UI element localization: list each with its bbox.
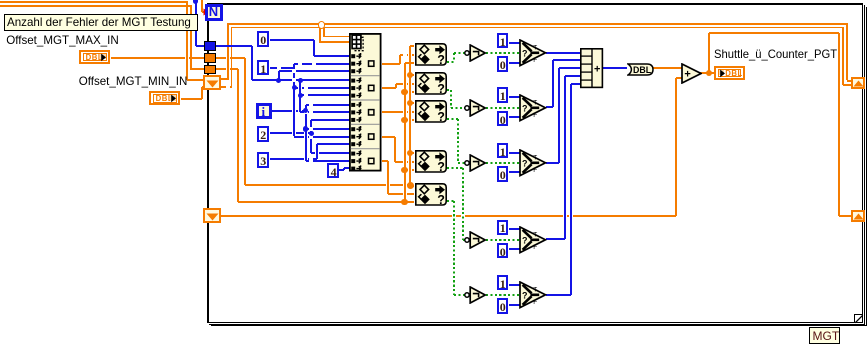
junction i row10 [0,0,1,1]
wire MAX control to tunnel [0,0,1,1]
wire sum to DBL conversion [0,0,1,1]
wire i into row10 [0,0,1,1]
svg-text:T: T [533,154,537,161]
wire MIN into IR5 lo [0,0,1,1]
wire 0 into select 3 [0,0,1,1]
dog-ear fold [0,0,1,1]
wire select3 out [0,0,1,1]
wire bool out IR2 [0,0,1,1]
junction MIN IR2 [0,0,1,1]
wire add out [0,0,1,1]
svg-text:+: + [684,68,690,80]
svg-text:?: ? [437,192,445,206]
wire SR pair left vertical A [0,0,1,1]
wire array out2 up [0,0,1,1]
wire MIN distribution vertical [0,0,1,1]
wire 0 into select 5 [0,0,1,1]
shift register left terminal 2 (down arrow) [0,0,1,1]
svg-text:T: T [533,45,537,52]
wire const 1 vertical [0,0,1,1]
add node [0,0,1,1]
wire bool out IR4 [0,0,1,1]
for-loop shadow line 1 [0,0,1,1]
wire const 2 into row13 [0,0,1,1]
wire result up [0,0,1,1]
wire MIN under node [0,0,1,1]
wire array out5 [0,0,1,1]
constant 1 (row 3) [0,0,1,1]
junction MIN IR3 [0,0,1,1]
wire array out4 down [0,0,1,1]
select node 1 [0,0,1,1]
tunnel orange MIN [0,0,1,1]
wire branch into row3 [0,0,1,1]
label Offset_MGT_MIN_IN [0,0,1,1]
for-loop count terminal N [0,0,1,1]
wire result down right [0,0,1,1]
coercion dot (red arrow) at N [0,0,1,1]
wire MAX into IR2 hi [0,0,1,1]
wire const 2 out [0,0,1,1]
wire select5 vertical [0,0,1,1]
junction main array B [0,0,1,1]
wire bool into NOT4 [0,0,1,1]
wire main array into row4 [0,0,1,1]
wire bool NOT3 to select [0,0,1,1]
wire MAX into IR5 hi [0,0,1,1]
svg-text:?: ? [522,235,528,245]
wire branch into row8 [0,0,1,1]
wire bool vertical IR2 [0,0,1,1]
svg-text:F: F [533,299,537,306]
constant 1 (row 4) [0,0,1,1]
in-range-and-coerce node 4 [0,0,1,1]
wire const 3 vertical [0,0,1,1]
wire count into N [0,0,1,1]
wire MIN into IR3 lo [0,0,1,1]
wire iteration i out [0,0,1,1]
wire DBL to add [0,0,1,1]
wire result top run [0,0,1,1]
svg-text:T: T [533,287,537,294]
wire select4 out [0,0,1,1]
junction on blue wire at top edge [0,0,1,1]
wire bool vertical IR3 [0,0,1,1]
wire SR pair lower horizontal [0,0,1,1]
wire bool into NOT3 [0,0,1,1]
wire select4 vertical [0,0,1,1]
wire const 4 into row15 [0,0,1,1]
wire bool out IR3 [0,0,1,1]
wire MAX distribution vertical [0,0,1,1]
wire blue tunnel down [0,0,1,1]
constant 0 (row 5) [0,0,1,1]
wire blue from top edge [0,0,1,1]
in-range-and-coerce node 5 [0,0,1,1]
wire const 4 out [0,0,1,1]
wire blue into tunnel [0,0,1,1]
NOT gate 4 [0,0,1,1]
junction ring on upper pair wire [0,0,1,1]
wire feedback up to add [0,0,1,1]
shift register left terminal 1 (down arrow) [0,0,1,1]
wire MIN into IR2 lo [0,0,1,1]
wire blue tunnel out [0,0,1,1]
wire bool out IR5 [0,0,1,1]
wire branch down from main [0,0,1,1]
junction MAX IR3 [0,0,1,1]
constant 1 (row 5) [0,0,1,1]
svg-text:T: T [533,99,537,106]
wire array out1 [0,0,1,1]
wire bool into NOT2 [0,0,1,1]
svg-text:?: ? [522,103,528,113]
wire MIN inside tunnel out [0,0,1,1]
wire const 0 out [0,0,1,1]
wire 1 into select 1 [0,0,1,1]
wire branch up from main [0,0,1,1]
wire 0 into select 4 [0,0,1,1]
svg-text:F: F [533,111,537,118]
NOT gate 5 [0,0,1,1]
tunnel orange MAX [0,0,1,1]
wire MAX into IR1 hi [0,0,1,1]
wire min tunnel feed from left edge [0,0,1,1]
wire 1 into select 4 [0,0,1,1]
svg-text:DBL: DBL [633,65,652,75]
constant 4 [0,0,1,1]
wire SR pair right vertical A [0,0,1,1]
wire branch into row11 [0,0,1,1]
svg-text:+: + [593,64,599,76]
iteration terminal i [0,0,1,1]
select node 2 [0,0,1,1]
svg-text:?: ? [437,110,445,124]
MGT frame label [0,0,1,1]
wire array input 2 into node [0,0,1,1]
wire array input 1 into node [0,0,1,1]
wire bool into NOT5 [0,0,1,1]
wire select1 to sum [0,0,1,1]
wire 1 into select 5 [0,0,1,1]
wire select2 out [0,0,1,1]
wire bool NOT2 to select [0,0,1,1]
svg-text:?: ? [522,158,528,168]
control terminal Offset_MGT_MIN_IN (DBL) [0,0,1,1]
wire iteration vertical [0,0,1,1]
for-loop border [0,0,1,1]
wire MAX into IR3 hi [0,0,1,1]
constant 1 [0,0,1,1]
wire select4 into sum [0,0,1,1]
wire SR pair upper horizontal [0,0,1,1]
wire const 3 into row12 [0,0,1,1]
junction MAX IR2 [0,0,1,1]
wire shift-reg upper feed into SR [0,0,1,1]
wire select2 into sum [0,0,1,1]
for-loop shadow line 2 [0,0,1,1]
indicator terminal Shuttle_ü_Counter_PGT (DBL) [0,0,1,1]
wire SR pair into right SR1 upper [0,0,1,1]
wire SR pair right vertical B [0,0,1,1]
wire array input drop 2 [0,0,1,1]
wire MIN control out [0,0,1,1]
NOT gate 3 [0,0,1,1]
wire 1 into select 3 [0,0,1,1]
wire array out2 into IR2 x [0,0,1,1]
junction MAX IR4 [0,0,1,1]
wire const 3 out [0,0,1,1]
label Shuttle_ü_Counter_PGT [0,0,1,1]
constant 0 (row 2) [0,0,1,1]
wire array out2 [0,0,1,1]
wire select5 into sum [0,0,1,1]
tunnel blue (array in) [0,0,1,1]
wire MIN into IR1 lo [0,0,1,1]
in-range-and-coerce node 2 [0,0,1,1]
label Anzahl der Fehler der MGT Testung [0,0,1,1]
wire feedback into add [0,0,1,1]
wire MAX under node [0,0,1,1]
wire bool out IR1 [0,0,1,1]
svg-text:F: F [533,243,537,250]
constant 0 (row 1) [0,0,1,1]
junction add output [0,0,1,1]
in-range-and-coerce node 3 [0,0,1,1]
wire bool vertical IR1 [0,0,1,1]
select node 3 [0,0,1,1]
select node 5 [0,0,1,1]
wire count into N vertical [0,0,1,1]
wire result into SR2 [0,0,1,1]
svg-text:?: ? [437,82,445,96]
wire branch into row5 [0,0,1,1]
svg-text:F: F [533,167,537,174]
control terminal Offset_MGT_MAX_IN (DBL) [0,0,1,1]
wire shift-reg upper feed from left edge [0,0,1,1]
junction MIN IR4 [0,0,1,1]
to-DBL conversion node [0,0,1,1]
index array node [0,0,1,1]
wire i into row14 [0,0,1,1]
wire const 1 out [0,0,1,1]
wire SR1 lower stub [0,0,1,1]
in-range-and-coerce node 1 [0,0,1,1]
wire array out4 [0,0,1,1]
wire min tunnel feed into tunnel [0,0,1,1]
compound arithmetic add node [0,0,1,1]
wire bool NOT4 to select [0,0,1,1]
wire const 1 into row2 [0,0,1,1]
wire select3 into sum [0,0,1,1]
wire 1 into select 2 [0,0,1,1]
select node 4 [0,0,1,1]
wire bool NOT5 to select [0,0,1,1]
constant 3 [0,0,1,1]
wire select3 vertical [0,0,1,1]
wire SR2 feedback long [0,0,1,1]
wire SR pair into right SR1 lower [0,0,1,1]
wire 0 into select 2 [0,0,1,1]
wire bool NOT1 to select [0,0,1,1]
wire MIN control into SR [0,0,1,1]
constant 2 [0,0,1,1]
wire MIN into IR4 lo [0,0,1,1]
junction const2 join [0,0,1,1]
NOT gate 2 [0,0,1,1]
wire select2 vertical [0,0,1,1]
junction row6 branch [0,0,1,1]
wire const 4 up [0,0,1,1]
svg-text:?: ? [437,160,445,174]
svg-text:T: T [533,231,537,238]
label Offset_MGT_MAX_IN [0,0,1,1]
wire const 0 down [0,0,1,1]
junction i join [0,0,1,1]
wire bool vertical IR4 [0,0,1,1]
wire array out5 into IR5 x [0,0,1,1]
wire MIN control up [0,0,1,1]
NOT gate 1 [0,0,1,1]
wire array out1 up [0,0,1,1]
wire const 2 vertical [0,0,1,1]
junction MAX big at IR5 [0,0,1,1]
wire min tunnel feed vertical [0,0,1,1]
wire array input drop 1 [0,0,1,1]
junction MIN IR5 [0,0,1,1]
wire MAX inside tunnel out [0,0,1,1]
wire MAX down left [0,0,1,1]
wire bool vertical IR5 [0,0,1,1]
wire 0 into select 1 [0,0,1,1]
wire branch into row6 [0,0,1,1]
shift register right terminal 1 (up arrow) [0,0,1,1]
wire array out1 into IR1 x [0,0,1,1]
wire array out5 down [0,0,1,1]
wire i into row7 [0,0,1,1]
wire shift-reg upper feed vertical [0,0,1,1]
shift register right terminal 2 (up arrow) [0,0,1,1]
junction main array A [0,0,1,1]
constant 1 (row 1) [0,0,1,1]
junction const1 row5 [0,0,1,1]
wire const 2 into row9 [0,0,1,1]
svg-text:?: ? [522,291,528,301]
wire select5 out [0,0,1,1]
wire array out4 into IR4 x [0,0,1,1]
wire bool into NOT1 [0,0,1,1]
wire array out3 into IR3 x [0,0,1,1]
wire const 0 into row1 [0,0,1,1]
svg-text:F: F [533,57,537,64]
constant 0 (row 4) [0,0,1,1]
wire SR1 upper stub [0,0,1,1]
svg-text:?: ? [437,53,445,67]
constant 0 [0,0,1,1]
constant 0 (row 3) [0,0,1,1]
wire MIN down left [0,0,1,1]
wire SR pair left vertical B [0,0,1,1]
wire MAX into IR4 hi [0,0,1,1]
svg-text:?: ? [522,49,528,59]
constant 1 (row 2) [0,0,1,1]
